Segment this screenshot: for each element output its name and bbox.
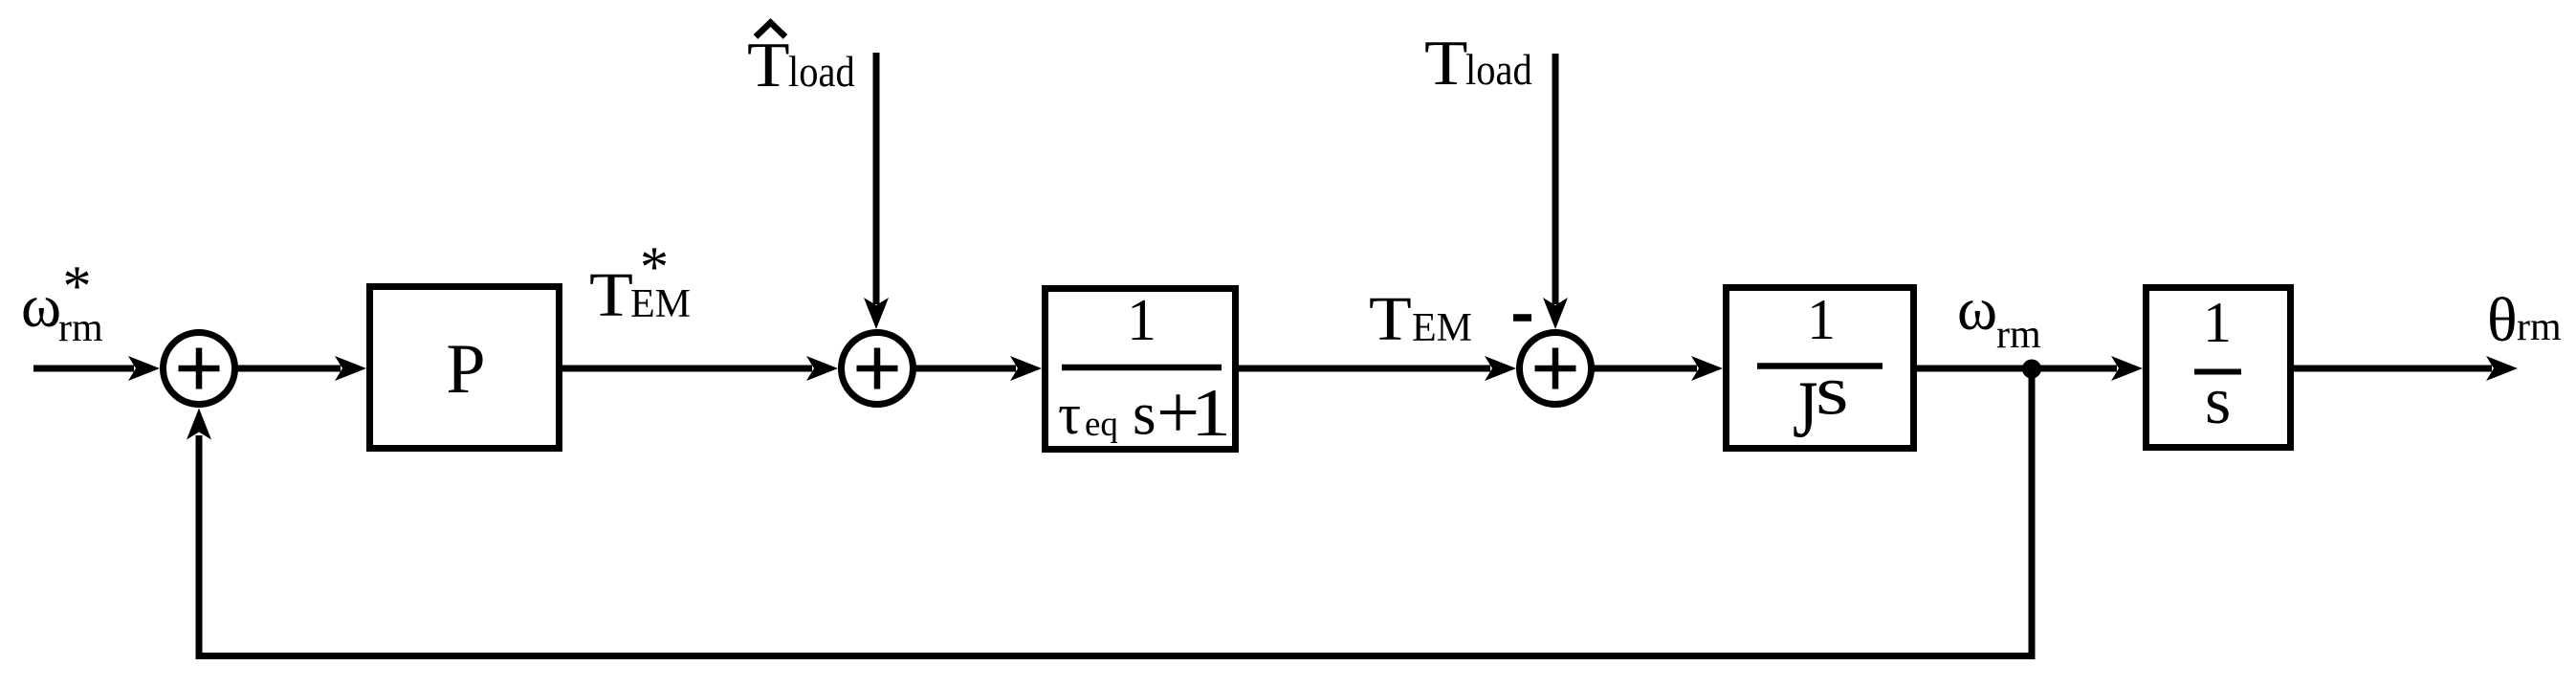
svg-text:1: 1: [1191, 375, 1231, 451]
svg-text:τ: τ: [1058, 383, 1081, 446]
node label T_EM: [1369, 284, 1472, 354]
wire P to S2: [562, 356, 838, 381]
node label T_load: [1424, 28, 1532, 99]
svg-text:T: T: [1424, 28, 1467, 99]
wire T-hat_load down into S2: [864, 53, 889, 329]
svg-text:s: s: [2205, 365, 2231, 438]
svg-text:J: J: [1793, 364, 1817, 455]
wire G2 to block G3 with node dot: [1917, 356, 2143, 381]
svg-text:load: load: [1465, 47, 1532, 94]
svg-text:rm: rm: [1996, 313, 2041, 357]
svg-text:eq: eq: [1085, 405, 1118, 444]
svg-text:rm: rm: [2517, 305, 2562, 349]
node label omega_rm: [1957, 275, 2041, 357]
svg-text:1: 1: [1127, 288, 1156, 353]
svg-text:EM: EM: [1412, 306, 1472, 350]
svg-text:s: s: [1133, 381, 1156, 448]
node label T-hat_load: [747, 23, 855, 101]
block G2: 1/(Js): [1727, 288, 1914, 455]
wire G1 to S3: [1239, 356, 1516, 381]
wire input into S1: [33, 356, 160, 381]
node label omega*_rm (input): [21, 255, 103, 350]
svg-text:T: T: [1369, 284, 1412, 354]
svg-text:θ: θ: [2487, 285, 2518, 355]
block G1: 1/(tau_eq s+1): [1046, 288, 1236, 455]
wire feedback from node down, across bottom, up into S1: [187, 373, 2032, 656]
summing junction S1: [164, 333, 235, 405]
svg-text:s: s: [1816, 351, 1849, 430]
minus sign at S3: [1513, 314, 1531, 322]
svg-text:*: *: [63, 255, 92, 318]
svg-text:1: 1: [2203, 291, 2232, 354]
wire output: [2294, 356, 2518, 381]
svg-text:ω: ω: [1957, 275, 1997, 343]
wire T_load down into S3: [1543, 54, 1568, 329]
svg-text:T: T: [589, 260, 633, 330]
block G3: 1/s: [2147, 288, 2291, 448]
node label T*_EM: [589, 235, 691, 330]
wire S2 to block G1: [913, 356, 1042, 381]
svg-text:load: load: [788, 49, 855, 96]
svg-text:ω: ω: [21, 272, 61, 340]
wire S1 to block P: [234, 356, 366, 381]
wire S3 to block G2: [1591, 356, 1723, 381]
svg-text:P: P: [446, 330, 485, 409]
node junction dot: [2022, 360, 2041, 379]
summing junction S3: [1520, 333, 1592, 405]
svg-text:T: T: [747, 31, 790, 101]
node label theta_rm: [2487, 285, 2562, 355]
svg-text:*: *: [640, 235, 669, 299]
block P: [370, 287, 560, 449]
svg-text:1: 1: [1807, 288, 1836, 351]
summing junction S2: [842, 333, 914, 405]
